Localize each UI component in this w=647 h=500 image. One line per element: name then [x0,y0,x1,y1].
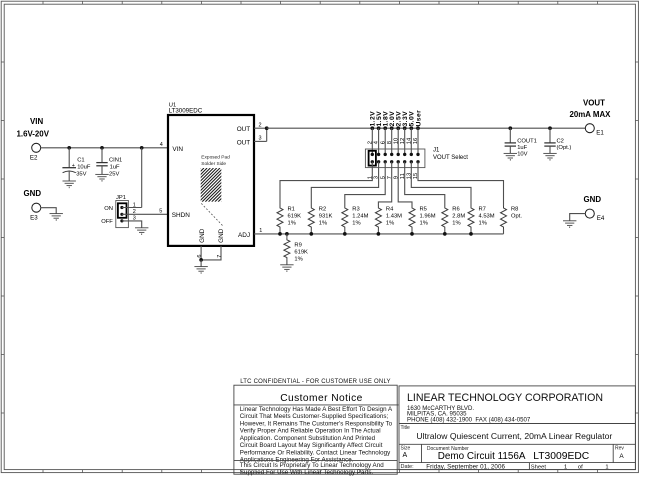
svg-text:1: 1 [133,202,136,208]
svg-text:8: 8 [387,141,393,144]
svg-text:Demo Circuit 1156A: Demo Circuit 1156A [438,451,526,462]
svg-text:1: 1 [564,464,567,470]
svg-text:GND: GND [24,189,42,198]
svg-text:20mA MAX: 20mA MAX [570,110,612,119]
svg-text:Friday, September 01, 2006: Friday, September 01, 2006 [426,463,505,470]
svg-text:1%: 1% [288,221,296,227]
svg-text:14: 14 [406,137,412,144]
svg-text:12: 12 [400,138,406,144]
svg-text:1.6V-20V: 1.6V-20V [17,130,50,139]
svg-text:619K: 619K [288,214,302,220]
svg-text:4: 4 [160,142,163,148]
svg-text:A: A [619,453,624,460]
svg-text:4.53M: 4.53M [479,214,495,220]
svg-text:Opt.: Opt. [511,214,522,220]
svg-text:OUT: OUT [237,126,251,133]
svg-text:J1: J1 [433,148,440,154]
svg-text:3: 3 [133,216,136,222]
svg-text:+: + [72,163,75,169]
svg-text:(Opt.): (Opt.) [557,145,572,151]
svg-text:User: User [415,110,422,127]
svg-text:Supplied For Use With Linear T: Supplied For Use With Linear Technology … [240,469,374,476]
svg-text:GND: GND [218,228,225,243]
svg-text:R8: R8 [511,207,518,213]
svg-text:However, It Remains The Custom: However, It Remains The Customer's Respo… [240,420,393,427]
svg-text:R6: R6 [452,207,459,213]
svg-text:OUT: OUT [237,140,251,147]
svg-text:1uF: 1uF [110,164,120,170]
svg-text:1.96M: 1.96M [420,214,436,220]
svg-text:Circuit That Meets Customer-Su: Circuit That Meets Customer-Supplied Spe… [240,413,389,420]
svg-text:R3: R3 [352,207,359,213]
svg-text:1%: 1% [452,221,460,227]
svg-text:10uF: 10uF [77,164,91,170]
svg-text:Application. Component Substit: Application. Component Substitution And … [240,435,376,442]
svg-text:6: 6 [197,255,203,258]
svg-text:6: 6 [380,141,386,144]
svg-text:ON: ON [104,206,113,212]
svg-text:VIN: VIN [30,117,43,126]
svg-text:1: 1 [259,228,262,234]
svg-text:Linear Technology Has Made A B: Linear Technology Has Made A Best Effort… [240,406,393,413]
svg-text:R7: R7 [479,207,486,213]
svg-text:1%: 1% [294,257,302,263]
svg-text:This Circuit Is Proprietary To: This Circuit Is Proprietary To Linear Te… [240,462,384,469]
svg-text:R2: R2 [319,207,326,213]
svg-text:1.43M: 1.43M [386,214,402,220]
svg-text:1%: 1% [319,221,327,227]
svg-text:Customer Notice: Customer Notice [280,393,363,404]
svg-text:VOUT Select: VOUT Select [433,155,468,161]
svg-text:OFF: OFF [101,219,113,225]
svg-text:Verify Proper And Reliable Ope: Verify Proper And Reliable Operation In … [240,428,381,435]
svg-text:LTC CONFIDENTIAL - FOR CUSTOME: LTC CONFIDENTIAL - FOR CUSTOMER USE ONLY [240,379,391,385]
svg-text:CIN1: CIN1 [109,158,122,164]
svg-text:10V: 10V [517,151,527,157]
svg-text:SHDN: SHDN [172,212,190,219]
svg-text:1%: 1% [352,221,360,227]
svg-text:25V: 25V [109,171,119,177]
svg-text:2: 2 [259,122,262,128]
svg-text:E3: E3 [30,214,38,221]
svg-text:Sheet: Sheet [531,464,547,470]
svg-text:Exposed Pad: Exposed Pad [201,155,230,161]
svg-text:Title: Title [401,425,410,431]
svg-text:Performance Or Reliability. Co: Performance Or Reliability. Contact Line… [240,449,391,456]
svg-text:E2: E2 [30,155,38,162]
svg-text:931K: 931K [319,214,333,220]
svg-text:1%: 1% [420,221,428,227]
svg-text:COUT1: COUT1 [517,139,537,145]
svg-text:10: 10 [393,138,399,144]
svg-text:VIN: VIN [172,146,183,153]
svg-text:JP1: JP1 [116,195,126,201]
svg-text:GND: GND [584,195,602,204]
svg-text:35V: 35V [76,171,86,177]
svg-text:1uF: 1uF [517,145,527,151]
svg-text:C1: C1 [77,158,84,164]
svg-text:C2: C2 [557,139,564,145]
svg-text:1: 1 [605,464,608,470]
svg-text:E4: E4 [597,215,605,222]
svg-text:LT3009EDC: LT3009EDC [533,451,589,462]
svg-text:1%: 1% [479,221,487,227]
svg-text:Size: Size [401,446,411,452]
svg-text:2: 2 [133,209,136,215]
svg-text:PHONE (408) 432-1900 FAX (408: PHONE (408) 432-1900 FAX (408) 434-0507 [407,416,531,423]
svg-text:ADJ: ADJ [238,232,250,239]
svg-text:2.8M: 2.8M [452,214,465,220]
svg-text:619K: 619K [294,250,308,256]
svg-text:5: 5 [159,208,162,214]
svg-text:Circuit Board Layout May Signi: Circuit Board Layout May Significantly A… [240,442,383,449]
svg-text:A: A [402,452,407,459]
svg-text:R1: R1 [288,207,295,213]
svg-text:3: 3 [259,136,262,142]
svg-text:GND: GND [199,228,206,243]
svg-text:R5: R5 [420,207,427,213]
svg-text:Solder Side: Solder Side [201,161,226,167]
svg-text:LT3009EDC: LT3009EDC [169,108,203,115]
svg-text:R9: R9 [294,243,301,249]
svg-text:2: 2 [367,141,373,144]
svg-text:Rev: Rev [615,446,624,452]
svg-text:Date:: Date: [401,464,415,470]
svg-text:VOUT: VOUT [583,99,605,108]
svg-text:Ultralow Quiescent Current, 20: Ultralow Quiescent Current, 20mA Linear … [416,431,612,441]
svg-text:of: of [578,464,583,470]
svg-text:16: 16 [413,138,419,144]
svg-text:LINEAR TECHNOLOGY CORPORATION: LINEAR TECHNOLOGY CORPORATION [407,392,603,404]
svg-text:7: 7 [217,255,223,258]
svg-text:E1: E1 [596,130,604,137]
svg-text:R4: R4 [386,207,394,213]
svg-text:1.24M: 1.24M [352,214,368,220]
svg-text:1%: 1% [386,221,394,227]
